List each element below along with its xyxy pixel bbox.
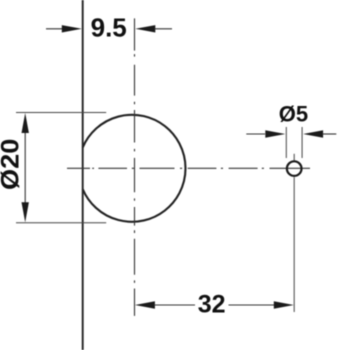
svg-text:32: 32 (198, 291, 226, 319)
svg-text:9.5: 9.5 (91, 13, 127, 43)
svg-text:Ø20: Ø20 (0, 139, 24, 190)
svg-text:Ø5: Ø5 (279, 102, 308, 127)
